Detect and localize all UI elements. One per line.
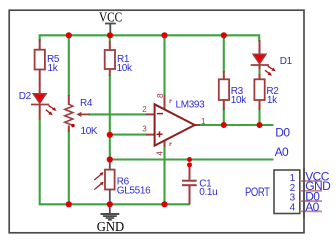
PORT pin 2 line	[300, 190, 322, 192]
svg-text:VCC: VCC	[99, 10, 122, 25]
diode D2 (LED)	[19, 91, 57, 120]
U1 tick mark top	[170, 100, 172, 104]
D2 cathode pin	[39, 105, 41, 120]
inverting input minus sign	[157, 113, 163, 115]
R6 body	[105, 170, 115, 190]
R5 body	[35, 50, 45, 70]
svg-text:4: 4	[290, 202, 296, 213]
svg-text:3: 3	[142, 125, 147, 134]
R4 top pin	[68, 95, 70, 105]
C1 bottom pin	[189, 186, 191, 204]
svg-text:D2: D2	[19, 91, 32, 102]
D1 emission arrow 2	[265, 70, 269, 74]
potentiometer R4	[65, 95, 98, 137]
junction gnd-R4	[66, 201, 72, 207]
svg-text:1k: 1k	[267, 95, 278, 106]
R6 light arrow 2	[94, 184, 101, 190]
R6 bottom pin	[109, 190, 111, 205]
C1 top plate	[182, 180, 197, 182]
R4 wiper arrow	[76, 112, 81, 117]
PORT body	[274, 170, 300, 214]
wire rail to R4 top	[68, 35, 70, 96]
diode D1 (LED)	[251, 40, 293, 76]
R5 top pin	[39, 39, 41, 50]
PORT pin 3 line	[300, 200, 322, 202]
R2 top pin	[259, 74, 261, 80]
pin stub op-amp output pin 1	[194, 124, 200, 126]
capacitor C1	[182, 163, 217, 204]
svg-text:2: 2	[142, 105, 147, 114]
R5 bottom pin / D2 anode	[39, 69, 41, 95]
svg-text:10K: 10K	[81, 126, 98, 137]
junction D0-R3	[221, 122, 227, 128]
svg-text:10k: 10k	[117, 63, 133, 74]
wire op-amp pin 4 to ground	[163, 146, 165, 204]
junction gnd-R6	[107, 201, 113, 207]
wire D1 cathode to R2 top	[258, 67, 260, 76]
D1 anode pin	[259, 40, 261, 55]
svg-text:A0: A0	[275, 145, 289, 159]
wire R4 wiper to op-amp pin 2	[89, 113, 147, 115]
PORT pin 4 line	[300, 210, 322, 212]
wire R4 bottom to ground	[68, 131, 70, 205]
R6 light arrow 1	[94, 174, 101, 180]
R4 bottom dot	[71, 124, 74, 127]
C1 top pin	[189, 163, 191, 180]
junction gnd-pin4	[161, 201, 167, 207]
R1 bottom pin	[109, 69, 111, 76]
svg-text:1: 1	[201, 117, 206, 126]
D1 cathode bar	[251, 64, 269, 66]
pin 8 stub	[164, 95, 166, 110]
svg-text:PORT: PORT	[245, 185, 270, 199]
wire VCC top rail	[40, 35, 260, 41]
svg-text:0.1u: 0.1u	[199, 187, 217, 198]
junction D0-R2	[257, 122, 263, 128]
D2 emission arrow 2	[46, 110, 50, 114]
photoresistor R6 GL5516	[94, 160, 151, 204]
D1 triangle	[253, 54, 266, 64]
wire rail to op-amp pin 8	[163, 35, 165, 96]
resistor R5	[35, 39, 60, 95]
R2 body	[254, 79, 264, 100]
junction rail-pin8	[161, 32, 167, 38]
PORT pin 1 line	[300, 180, 322, 182]
junction pin3 tap	[107, 132, 113, 138]
svg-text:GND: GND	[97, 219, 124, 234]
connector PORT	[245, 169, 331, 214]
op-amp triangle	[155, 104, 195, 145]
wire R2 bottom to D0	[258, 108, 260, 125]
wire D2 cathode to ground run	[40, 119, 190, 205]
op-amp U1 LM393	[142, 93, 206, 156]
junction rail-VCC	[107, 32, 113, 38]
svg-text:D0: D0	[275, 126, 290, 140]
pin 3 stub	[146, 134, 155, 136]
junction rail-R3	[221, 32, 227, 38]
junction A0-R6	[107, 156, 113, 162]
R3 body	[219, 79, 229, 100]
junction rail-R4	[66, 32, 72, 38]
wire rail to R1 top	[109, 35, 111, 42]
svg-text:LM393: LM393	[176, 99, 206, 110]
D2 emission arrow 1	[49, 106, 54, 109]
non-inverting input plus sign	[157, 133, 163, 135]
D2 cathode bar	[31, 104, 49, 106]
svg-text:4: 4	[156, 151, 165, 156]
pin 2 stub	[146, 113, 155, 115]
svg-text:10k: 10k	[231, 95, 247, 106]
R1 top pin	[109, 41, 111, 50]
R2 bottom pin	[259, 100, 261, 110]
resistor R2	[254, 74, 279, 110]
wire R3 bottom to D0	[223, 108, 225, 125]
resistor R1	[105, 41, 133, 76]
wire D0 net	[200, 124, 274, 126]
R3 bottom pin	[223, 100, 225, 110]
svg-text:D1: D1	[280, 56, 293, 67]
pin 4 stub	[164, 140, 166, 148]
svg-text:8: 8	[156, 93, 165, 98]
svg-text:GL5516: GL5516	[117, 186, 151, 197]
wire to op-amp pin 3	[110, 134, 147, 136]
junction C1 top	[187, 162, 192, 167]
power symbol VCC	[105, 24, 116, 36]
junction A0-C1	[187, 157, 192, 162]
wire rail to R3 top	[223, 35, 225, 72]
svg-text:R4: R4	[80, 98, 93, 109]
svg-text:A0: A0	[305, 200, 319, 214]
R6 top pin	[109, 160, 111, 170]
ground	[101, 204, 120, 220]
R4 zigzag body	[65, 104, 73, 125]
wire R1 bottom to R6 top	[109, 75, 111, 160]
D1 cathode pin	[259, 65, 261, 69]
C1 bottom plate	[182, 184, 197, 186]
R1 body	[105, 50, 115, 69]
D2 triangle	[33, 94, 46, 104]
wire A0 net	[110, 158, 274, 160]
svg-text:1k: 1k	[48, 63, 59, 74]
resistor R3	[219, 71, 247, 110]
D1 emission arrow 1	[268, 66, 273, 69]
R4 bottom pin	[68, 125, 70, 132]
U1 tick mark bottom	[170, 143, 172, 147]
R3 top pin	[223, 71, 225, 80]
